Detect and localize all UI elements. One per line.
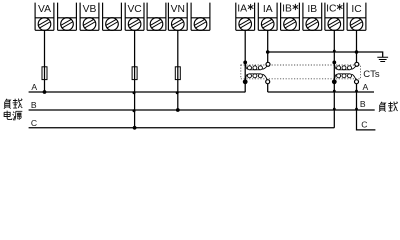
terminal IB* bbox=[281, 3, 300, 31]
wire CT IA dot to line A corner bbox=[244, 82, 246, 92]
svg-text:VB: VB bbox=[83, 4, 97, 15]
terminal blank 2 bbox=[58, 3, 77, 31]
label 负载 right bbox=[379, 102, 398, 112]
node IC-bus junction bbox=[355, 50, 359, 54]
label C left bbox=[31, 118, 37, 128]
wire CT IC circle to load C bbox=[357, 84, 376, 130]
svg-text:C: C bbox=[361, 119, 367, 129]
node CT IC top polarity dot bbox=[332, 61, 336, 65]
label 电源 left bbox=[4, 111, 22, 121]
terminal VC bbox=[125, 3, 144, 31]
wire ground bus bbox=[268, 52, 383, 57]
wire VC drop bbox=[134, 30, 136, 128]
label 负载 left bbox=[4, 99, 22, 109]
svg-text:IB: IB bbox=[282, 4, 292, 15]
svg-text:VA: VA bbox=[38, 4, 51, 15]
terminal VA bbox=[35, 3, 54, 31]
fuse FU3 bbox=[175, 67, 180, 80]
svg-text:A: A bbox=[31, 82, 37, 92]
terminal IA* bbox=[236, 3, 255, 31]
svg-text:IA: IA bbox=[263, 4, 273, 15]
CT IA secondary winding bbox=[245, 63, 267, 70]
wire crossing hop IC*-A bbox=[333, 90, 336, 93]
svg-text:IA: IA bbox=[237, 4, 247, 15]
wire line A left segment bbox=[29, 91, 246, 93]
terminal IC* bbox=[325, 3, 344, 31]
label B right bbox=[360, 99, 366, 109]
wire CT IC dot to line C bbox=[333, 82, 335, 128]
CT IC primary winding bbox=[334, 74, 356, 82]
wire VA drop bbox=[44, 30, 46, 92]
terminal VB bbox=[80, 3, 99, 31]
terminal blank 8 bbox=[191, 3, 210, 31]
ground bbox=[377, 57, 388, 61]
svg-text:IC: IC bbox=[351, 4, 362, 15]
node CT IC top open terminal bbox=[355, 62, 359, 66]
wire crossing hop IC*-B bbox=[333, 108, 336, 111]
CT dashed boundary box bbox=[241, 65, 361, 79]
svg-text:VN: VN bbox=[171, 4, 185, 15]
terminal IB bbox=[303, 3, 322, 31]
node CT IA top open terminal bbox=[266, 62, 270, 66]
label A right bbox=[363, 82, 369, 92]
label CTs bbox=[363, 69, 380, 80]
node VC-C junction bbox=[133, 126, 137, 130]
svg-text:B: B bbox=[31, 100, 37, 110]
svg-text:A: A bbox=[363, 82, 369, 92]
terminal VN bbox=[168, 3, 187, 31]
wire crossing hop IC-B bbox=[355, 108, 358, 111]
CT IC secondary winding bbox=[334, 63, 356, 70]
terminal IA bbox=[258, 3, 277, 31]
label A left bbox=[31, 82, 37, 92]
svg-text:IC: IC bbox=[326, 4, 337, 15]
wire crossing hop IC-A bbox=[355, 90, 358, 93]
wire crossing hop VC-A bbox=[133, 91, 136, 94]
terminal blank 6 bbox=[147, 3, 166, 31]
wire crossing hop VC-B bbox=[133, 109, 136, 112]
label B left bbox=[31, 100, 37, 110]
svg-text:B: B bbox=[360, 99, 366, 109]
fuse FU2 bbox=[132, 67, 137, 80]
wire VN drop bbox=[177, 30, 179, 110]
wire IC* lead bbox=[333, 30, 335, 82]
wire line C left segment bbox=[29, 127, 335, 129]
terminal IC bbox=[347, 3, 366, 31]
wire crossing hop IC*-bus bbox=[333, 50, 336, 53]
node VN-B junction bbox=[176, 108, 180, 112]
wire CT IA circle to line A corner bbox=[267, 84, 269, 92]
node CT IC bottom polarity dot bbox=[332, 79, 337, 84]
node CT IA bottom polarity dot bbox=[243, 79, 248, 84]
wire crossing hop VN-A bbox=[176, 91, 179, 94]
wire IA* lead bbox=[244, 30, 246, 82]
node VA-A junction bbox=[43, 90, 47, 94]
CT IA primary winding bbox=[245, 74, 267, 82]
wire IA lead bbox=[267, 30, 269, 62]
fuse FU1 bbox=[42, 67, 47, 80]
svg-text:CTs: CTs bbox=[363, 69, 380, 80]
svg-text:IB: IB bbox=[307, 4, 317, 15]
svg-text:C: C bbox=[31, 118, 37, 128]
label C right bbox=[361, 119, 367, 129]
terminal blank 4 bbox=[103, 3, 122, 31]
wire line B bbox=[29, 109, 375, 111]
node CT IC bottom open terminal bbox=[355, 80, 359, 84]
node CT IA bottom open terminal bbox=[266, 80, 270, 84]
wire line A right segment bbox=[268, 91, 374, 93]
wire IC lead bbox=[356, 30, 358, 62]
node CT IA top polarity dot bbox=[243, 61, 247, 65]
node IA-bus junction bbox=[266, 50, 270, 54]
svg-text:VC: VC bbox=[127, 4, 142, 15]
